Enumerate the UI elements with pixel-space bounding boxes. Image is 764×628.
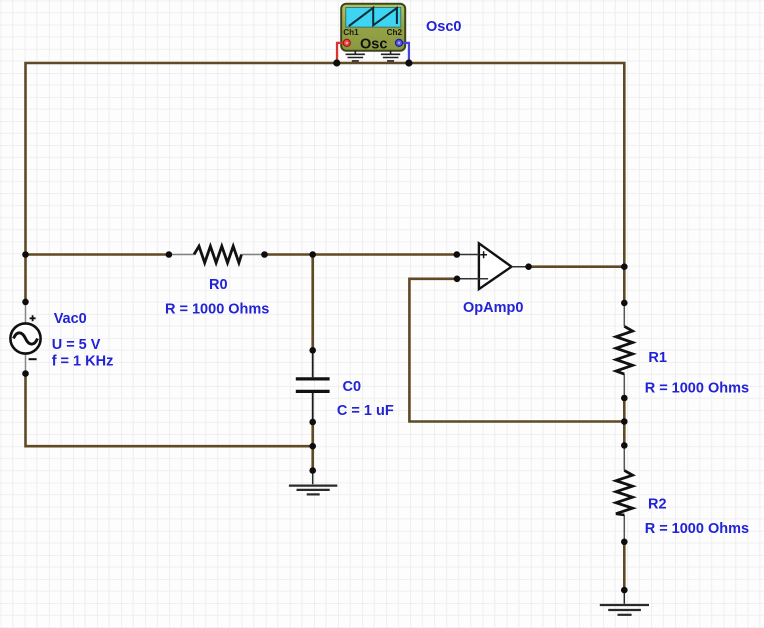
wire: op-amp output to right rail [529, 265, 625, 268]
node: junction dots [22, 59, 627, 593]
wire: right rail R2 to ground [623, 542, 626, 590]
node: R2 bottom pin [621, 539, 628, 546]
node: bottom wire / C0 ground branch [309, 443, 316, 450]
ground: below C0 [289, 471, 337, 495]
svg-text:Ch2: Ch2 [387, 28, 403, 37]
pin: output lead [512, 266, 529, 268]
node: Vac0 + pin [22, 299, 29, 306]
svg-text:Osc: Osc [360, 36, 387, 52]
resistor R0 [165, 246, 269, 318]
node: R0 right pin [261, 251, 268, 258]
node: C0 bottom pin [309, 419, 316, 426]
node: output / right rail [621, 263, 628, 270]
node: Ch2 probe on top wire [405, 59, 412, 66]
node: C0 ground pin [309, 467, 316, 474]
svg-text:R2: R2 [648, 496, 667, 512]
wire: feedback from op-amp inverting input to R1/R2 node [409, 279, 624, 422]
node: op-amp - input pin [454, 276, 461, 283]
pin: Vac0 - lead [25, 354, 27, 374]
node: op-amp output pin [525, 263, 532, 270]
svg-text:R = 1000 Ohms: R = 1000 Ohms [645, 381, 749, 397]
wire: mid wire left (Vac0 to R0) [26, 253, 169, 256]
node: R2 top pin [621, 442, 628, 449]
pin: non-inverting input lead [457, 254, 479, 256]
svg-text:OpAmp0: OpAmp0 [463, 300, 523, 316]
node: op-amp + input pin [454, 251, 461, 258]
wire: right rail between R1 and R2 [623, 398, 626, 445]
node: ground connection below R2 [621, 587, 628, 594]
capacitor C0 [296, 351, 394, 421]
pin: inverting input lead with minus mark [457, 278, 488, 280]
svg-text:Osc0: Osc0 [426, 19, 461, 35]
svg-text:f = 1 KHz: f = 1 KHz [52, 354, 114, 370]
wire: right rail output node to R1 [623, 267, 626, 303]
node: feedback / right rail [621, 418, 628, 425]
svg-text:C0: C0 [343, 379, 362, 395]
resistor R1 [616, 303, 749, 398]
svg-text:U = 5 V: U = 5 V [52, 337, 101, 353]
node: C0 top pin [309, 347, 316, 354]
node: R1 bottom pin [621, 395, 628, 402]
wire: capacitor top branch [311, 255, 314, 351]
svg-text:R1: R1 [648, 350, 667, 366]
pin: Ch2 terminal [395, 39, 402, 46]
pin: Ch1 terminal [343, 39, 350, 46]
wire: mid wire right (R0 to op-amp + input) [265, 253, 457, 256]
svg-text:Ch1: Ch1 [343, 28, 359, 37]
node: R0 left pin [166, 251, 173, 258]
svg-text:C = 1 uF: C = 1 uF [337, 403, 394, 419]
node: left rail / mid wire [22, 251, 29, 258]
node: Ch1 probe on top wire [333, 59, 340, 66]
op-amp U OpAmp0 [457, 243, 529, 316]
wire: Ch1 red probe wire [337, 43, 347, 62]
wire: capacitor bottom branch [311, 422, 314, 471]
node: Vac0 - pin [22, 370, 29, 377]
wire: left rail / top wire / right rail upper [26, 63, 625, 302]
node: R1 top pin [621, 300, 628, 307]
wire: Ch2 blue probe wire [399, 43, 409, 62]
pin: Vac0 + lead [25, 302, 27, 324]
svg-text:R = 1000 Ohms: R = 1000 Ohms [645, 521, 749, 537]
node: mid wire / C0 branch [309, 251, 316, 258]
wire: left rail lower + bottom wire [26, 374, 313, 447]
ground: below R2 [600, 590, 649, 615]
ac source Vac0 [10, 302, 113, 374]
svg-text:R = 1000 Ohms: R = 1000 Ohms [165, 302, 269, 318]
svg-text:R0: R0 [209, 277, 228, 293]
ground: oscilloscope Ch2 reference [381, 51, 400, 61]
ground: oscilloscope Ch1 reference [346, 51, 365, 61]
resistor R2 [616, 445, 749, 541]
svg-text:Vac0: Vac0 [54, 311, 87, 327]
oscilloscope Osc0 [337, 4, 461, 62]
